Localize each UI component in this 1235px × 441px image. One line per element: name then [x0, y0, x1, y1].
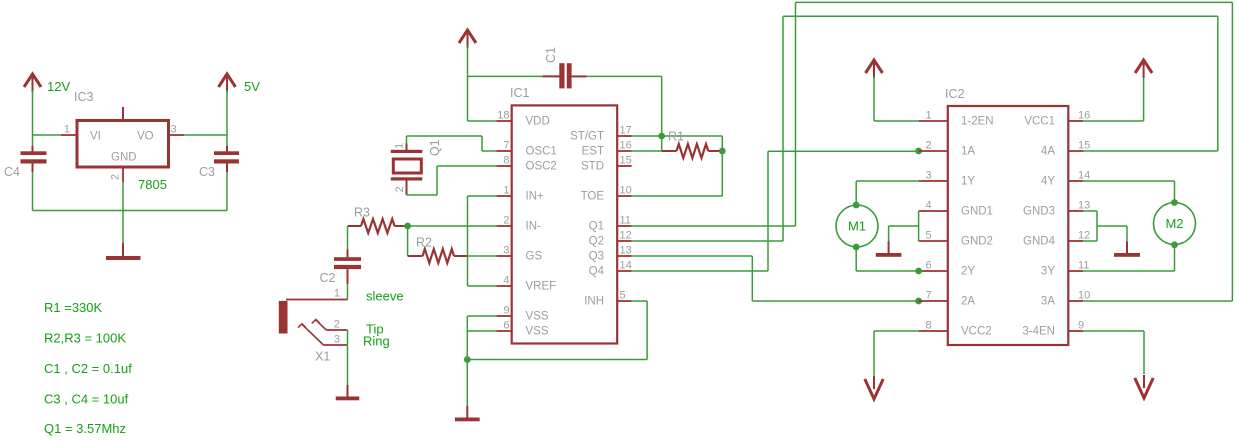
- svg-text:9: 9: [1078, 320, 1084, 332]
- svg-text:2: 2: [334, 319, 340, 331]
- wire tip-ring to ground: [347, 330, 349, 389]
- svg-text:1: 1: [64, 124, 70, 136]
- node 2A junction: [915, 298, 922, 305]
- IC3 voltage regulator 7805 body: [74, 90, 169, 192]
- resistor R2: [408, 226, 467, 263]
- svg-text:ST/GT: ST/GT: [570, 131, 604, 143]
- IC1 pin 3 GS: [496, 245, 542, 263]
- note R1 value: [44, 300, 103, 315]
- svg-text:3-4EN: 3-4EN: [1022, 326, 1055, 338]
- IC2 pin 14 4Y: [1041, 170, 1090, 188]
- svg-text:1Y: 1Y: [961, 176, 975, 188]
- svg-text:15: 15: [1078, 140, 1090, 152]
- IC2 pin 3 1Y: [919, 170, 976, 188]
- wire Q2 to 4A: [632, 16, 1218, 241]
- jack X1 sleeve pin 1: [279, 288, 404, 334]
- svg-text:Q3: Q3: [589, 251, 604, 263]
- svg-text:C4: C4: [4, 165, 20, 179]
- wire M1 bottom to 2Y: [856, 247, 918, 271]
- wire 3-4EN to down arrow: [1083, 331, 1144, 374]
- svg-text:17: 17: [620, 125, 632, 137]
- wire 5V to IC3 VO and C3: [184, 90, 227, 135]
- supply arrow VCC1: [1135, 60, 1152, 78]
- svg-text:1-2EN: 1-2EN: [961, 116, 994, 128]
- svg-text:X1: X1: [315, 350, 330, 364]
- node ST/GT junction: [658, 133, 665, 140]
- svg-text:VSS: VSS: [526, 326, 549, 338]
- svg-text:sleeve: sleeve: [366, 289, 404, 304]
- wire Q4 to 1A: [632, 151, 919, 271]
- ground near M1: [876, 242, 902, 257]
- wire ground rail under 7805: [33, 172, 228, 211]
- svg-text:VSS: VSS: [526, 311, 549, 323]
- wire 12V to IC3 VI and C4: [33, 90, 62, 135]
- svg-text:2: 2: [394, 186, 406, 192]
- note C3 C4 value: [44, 392, 129, 407]
- svg-text:12: 12: [620, 230, 632, 242]
- IC1 pin 7 OSC1: [496, 140, 557, 158]
- svg-text:14: 14: [1078, 170, 1090, 182]
- svg-text:GS: GS: [526, 251, 543, 263]
- IC2 pin 13 GND3: [1023, 200, 1090, 218]
- IC3 pin 3 VO: [169, 124, 185, 136]
- svg-text:VI: VI: [90, 131, 101, 143]
- IC1 pin 8 OSC2: [496, 155, 557, 173]
- svg-text:M2: M2: [1165, 216, 1183, 231]
- IC1 pin 17 ST/GT: [570, 125, 632, 143]
- wire M2 bottom to 3Y: [1083, 245, 1175, 271]
- svg-text:2: 2: [110, 174, 122, 180]
- node VSS ground junction: [464, 356, 471, 363]
- svg-text:2Y: 2Y: [961, 266, 975, 278]
- svg-text:1A: 1A: [961, 146, 975, 158]
- svg-text:11: 11: [1078, 260, 1089, 272]
- svg-text:16: 16: [620, 140, 632, 152]
- svg-text:6: 6: [503, 320, 509, 332]
- IC2 pin 9 3-4EN: [1022, 320, 1084, 338]
- wire VDD arrow down to pin 18: [468, 46, 497, 121]
- svg-text:3: 3: [334, 334, 340, 346]
- IC2 motor driver body: [945, 87, 1068, 345]
- node M1 bottom: [853, 244, 860, 251]
- svg-text:4: 4: [503, 275, 509, 287]
- svg-text:C3: C3: [199, 165, 215, 179]
- wire M1 top to 1Y: [856, 181, 918, 205]
- svg-text:3: 3: [503, 245, 509, 257]
- svg-text:C1 , C2 = 0.1uf: C1 , C2 = 0.1uf: [44, 361, 132, 376]
- svg-text:VCC1: VCC1: [1024, 116, 1055, 128]
- svg-text:6: 6: [926, 260, 932, 272]
- supply arrow 5V: [219, 74, 261, 94]
- wire TOE: [632, 195, 723, 197]
- wire VCC2 to down arrow: [874, 331, 919, 376]
- jack X1 tip contact pin 2: [312, 319, 384, 337]
- svg-text:13: 13: [620, 245, 632, 257]
- svg-text:16: 16: [1078, 110, 1090, 122]
- IC2 pin 4 GND1: [919, 200, 993, 218]
- IC2 pin 15 4A: [1041, 140, 1090, 158]
- wire junction down to ground: [466, 360, 468, 407]
- svg-text:7: 7: [503, 140, 509, 152]
- wire 4Y to M2 top: [1083, 181, 1175, 203]
- resistor R3: [348, 206, 408, 234]
- capacitor C2: [320, 226, 362, 285]
- svg-text:2: 2: [926, 140, 932, 152]
- svg-text:TOE: TOE: [581, 191, 605, 203]
- svg-text:4Y: 4Y: [1041, 176, 1055, 188]
- svg-text:8: 8: [926, 320, 932, 332]
- supply arrow VDD IC1: [459, 30, 476, 48]
- IC2 pin 16 VCC1: [1024, 110, 1090, 128]
- IC1 pin 15 STD: [581, 155, 632, 173]
- down arrow at VCC2: [865, 376, 883, 399]
- wire junction to IN-: [408, 225, 497, 227]
- svg-text:1: 1: [394, 143, 406, 149]
- IC1 pin 2 IN-: [496, 215, 541, 233]
- node M2 top: [1171, 199, 1178, 206]
- note C1 C2 value: [44, 361, 132, 376]
- node M2 bottom: [1171, 241, 1178, 248]
- svg-text:10: 10: [620, 185, 632, 197]
- svg-text:R1: R1: [668, 130, 684, 144]
- IC1 pin 6 VSS: [496, 320, 549, 338]
- svg-text:M1: M1: [848, 219, 866, 234]
- svg-text:IC3: IC3: [74, 90, 94, 104]
- svg-text:18: 18: [497, 110, 509, 122]
- svg-text:GND3: GND3: [1023, 206, 1055, 218]
- svg-text:GND: GND: [111, 152, 137, 164]
- wire GND3-GND4 bracket: [1083, 211, 1127, 244]
- IC2 pin 6 2Y: [919, 260, 976, 278]
- wire arrow to 1-2EN: [874, 76, 919, 121]
- svg-text:IN-: IN-: [526, 221, 542, 233]
- wire Q1 to 3A: [632, 2, 1233, 301]
- wire IC3 GND down: [122, 182, 124, 243]
- svg-text:9: 9: [503, 305, 509, 317]
- ground near M2: [1114, 242, 1140, 257]
- IC2 pin 2 1A: [919, 140, 976, 158]
- IC2 pin 5 GND2: [919, 230, 993, 248]
- svg-text:Q1 = 3.57Mhz: Q1 = 3.57Mhz: [44, 421, 126, 436]
- supply arrow at IC2 1-2EN: [866, 60, 883, 78]
- svg-text:4A: 4A: [1041, 146, 1055, 158]
- wire R2 to GS: [468, 255, 497, 257]
- svg-text:IC2: IC2: [945, 87, 965, 101]
- node 1A junction: [915, 148, 922, 155]
- svg-text:12V: 12V: [47, 79, 70, 94]
- node M1 top: [853, 202, 860, 209]
- svg-text:GND2: GND2: [961, 236, 993, 248]
- node junction R3/R2/IN-: [404, 223, 411, 230]
- svg-text:3: 3: [171, 124, 177, 136]
- svg-text:IC1: IC1: [510, 86, 530, 100]
- IC2 pin 8 VCC2: [919, 320, 992, 338]
- svg-text:R2,R3 = 100K: R2,R3 = 100K: [44, 331, 126, 346]
- svg-text:C3 , C4 = 10uf: C3 , C4 = 10uf: [44, 392, 129, 407]
- IC1 pin 16 EST: [582, 140, 632, 158]
- IC2 pin 12 GND4: [1023, 230, 1090, 248]
- node 2Y junction: [915, 268, 922, 275]
- svg-text:2A: 2A: [961, 296, 975, 308]
- wire ST/GT node: [632, 136, 723, 196]
- svg-text:R1 =330K: R1 =330K: [44, 300, 103, 315]
- wire C2 to sleeve: [347, 284, 349, 300]
- wire VCC1 to arrow: [1083, 76, 1144, 121]
- svg-text:14: 14: [620, 260, 632, 272]
- IC1 pin 9 VSS: [496, 305, 549, 323]
- note R2 R3 value: [44, 331, 126, 346]
- supply arrow +12V: [24, 74, 70, 94]
- svg-text:R2: R2: [416, 236, 432, 250]
- motor M1: [836, 205, 878, 247]
- svg-text:5: 5: [926, 230, 932, 242]
- wire VSS pins to junction: [467, 316, 496, 360]
- svg-text:Ring: Ring: [363, 334, 390, 349]
- ground under jack X1: [336, 385, 360, 400]
- svg-text:11: 11: [620, 215, 631, 227]
- IC3 pin 1 VI: [61, 124, 77, 136]
- wire IN+ to VREF: [468, 196, 497, 286]
- IC1 DTMF decoder body: [510, 86, 617, 344]
- svg-text:12: 12: [1078, 230, 1090, 242]
- svg-text:1: 1: [503, 185, 509, 197]
- wire C1 to ST/GT-EST node: [587, 76, 662, 151]
- svg-text:Q1: Q1: [589, 221, 604, 233]
- svg-text:5V: 5V: [244, 79, 260, 94]
- svg-text:3A: 3A: [1041, 296, 1055, 308]
- IC1 pin 13 Q3: [589, 245, 632, 263]
- svg-text:15: 15: [620, 155, 632, 167]
- ground under IC1: [455, 406, 480, 421]
- IC1 pin 4 VREF: [496, 275, 556, 293]
- wire VDD branch to C1: [468, 75, 543, 77]
- svg-text:VO: VO: [137, 131, 154, 143]
- svg-text:5: 5: [620, 290, 626, 302]
- IC2 pin 11 3Y: [1041, 260, 1090, 278]
- svg-text:1: 1: [926, 110, 932, 122]
- svg-text:7: 7: [926, 290, 932, 302]
- IC1 pin 12 Q2: [589, 230, 632, 248]
- svg-text:VCC2: VCC2: [961, 326, 992, 338]
- svg-text:GND4: GND4: [1023, 236, 1056, 248]
- ground under IC3: [106, 243, 141, 260]
- svg-text:STD: STD: [581, 161, 604, 173]
- capacitor C4: [4, 135, 47, 179]
- svg-text:7805: 7805: [138, 177, 167, 192]
- note Q1 value: [44, 421, 126, 436]
- svg-text:13: 13: [1078, 200, 1090, 212]
- IC1 pin 1 IN+: [496, 185, 544, 203]
- svg-text:OSC1: OSC1: [526, 146, 557, 158]
- motor M2: [1154, 203, 1196, 245]
- svg-text:Q2: Q2: [589, 236, 604, 248]
- crystal Q1: [391, 139, 442, 195]
- svg-text:VREF: VREF: [526, 281, 557, 293]
- svg-text:C1: C1: [544, 47, 558, 63]
- svg-text:Q1: Q1: [428, 139, 442, 156]
- IC1 pin 5 INH: [584, 290, 632, 308]
- svg-text:10: 10: [1078, 290, 1090, 302]
- svg-text:4: 4: [926, 200, 932, 212]
- resistor R1: [662, 130, 723, 159]
- IC1 pin 10 TOE: [581, 185, 632, 203]
- wire GND1-GND2 bracket: [889, 211, 919, 244]
- svg-text:GND1: GND1: [961, 206, 993, 218]
- svg-text:EST: EST: [582, 146, 604, 158]
- svg-text:R3: R3: [354, 206, 370, 220]
- IC1 pin 14 Q4: [589, 260, 632, 278]
- IC1 pin 11 Q1: [589, 215, 632, 233]
- svg-text:IN+: IN+: [526, 191, 545, 203]
- down arrow at 3-4EN: [1135, 375, 1153, 398]
- capacitor C3: [199, 135, 239, 179]
- wire EST to R1: [632, 150, 662, 152]
- svg-text:INH: INH: [584, 296, 604, 308]
- svg-text:OSC2: OSC2: [526, 161, 557, 173]
- IC3 pin 2 GND: [110, 167, 124, 182]
- svg-text:2: 2: [503, 215, 509, 227]
- capacitor C1: [543, 47, 587, 88]
- jack X1 ring contact pin 3: [298, 324, 390, 364]
- wire Q3 to 2A: [632, 256, 919, 301]
- svg-text:C2: C2: [320, 271, 336, 285]
- wire junction to INH: [467, 301, 647, 360]
- IC1 pin 18 VDD: [496, 110, 549, 128]
- node R1 right junction: [719, 148, 726, 155]
- svg-text:3: 3: [926, 170, 932, 182]
- IC2 pin 1 1-2EN: [919, 110, 994, 128]
- svg-text:VDD: VDD: [526, 116, 550, 128]
- svg-text:1: 1: [334, 288, 340, 300]
- svg-text:8: 8: [503, 155, 509, 167]
- IC2 pin 7 2A: [919, 290, 976, 308]
- wire crystal pin2 to OSC2: [407, 166, 497, 195]
- svg-text:3Y: 3Y: [1041, 266, 1055, 278]
- wire crystal pin1 to OSC1: [407, 136, 497, 151]
- IC2 pin 10 3A: [1041, 290, 1090, 308]
- svg-text:Q4: Q4: [589, 266, 605, 278]
